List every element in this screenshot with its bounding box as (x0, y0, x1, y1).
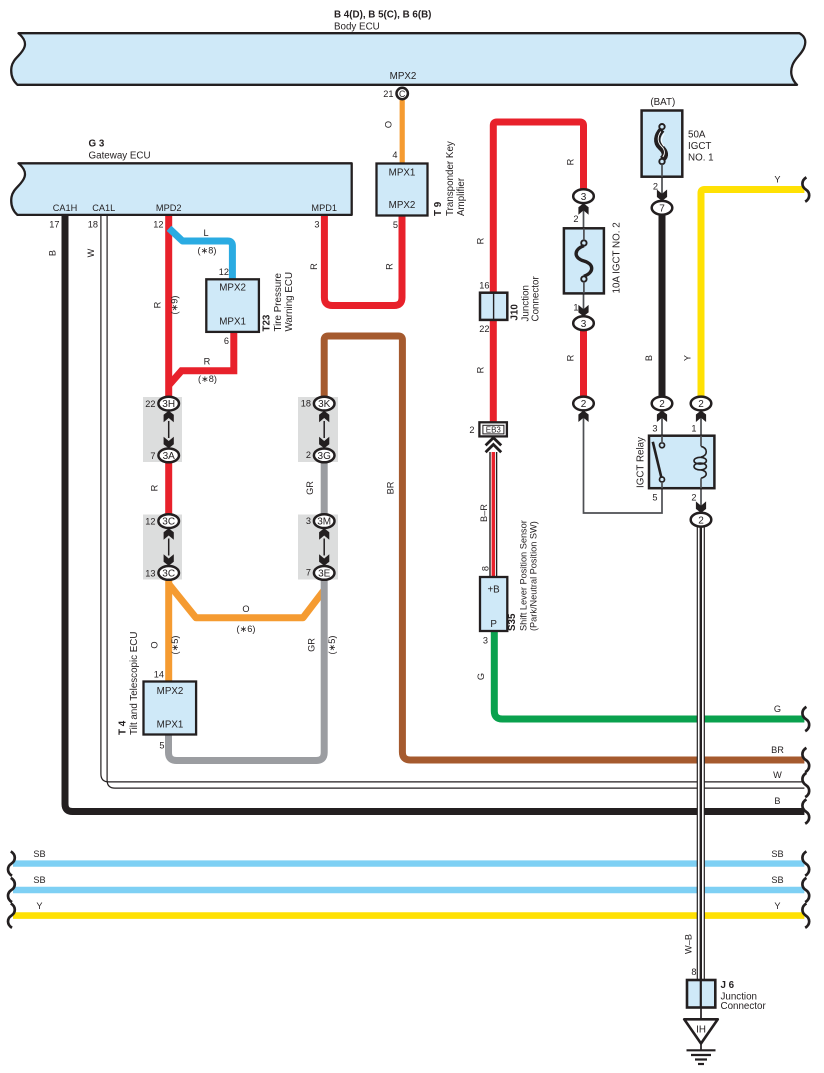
svg-text:SB: SB (771, 875, 783, 885)
svg-text:10A IGCT NO. 2: 10A IGCT NO. 2 (612, 222, 623, 293)
connector 3G oval pin2 (314, 449, 335, 463)
fuse 50A internal pin line (661, 164, 663, 177)
wire O branch (*6) between 3C column and 3E column (169, 584, 325, 618)
svg-text:MPX2: MPX2 (389, 200, 416, 211)
svg-text:Warning ECU: Warning ECU (284, 272, 295, 332)
svg-text:Y: Y (774, 901, 780, 911)
svg-text:G: G (774, 704, 781, 714)
tear mark left Y bus (8, 903, 15, 927)
svg-text:MPX2: MPX2 (219, 283, 246, 294)
svg-text:+B: +B (487, 585, 500, 596)
svg-text:5: 5 (652, 493, 657, 503)
svg-text:3G: 3G (318, 451, 332, 462)
svg-text:3: 3 (483, 636, 488, 646)
connector 3C-3C mating arrows (164, 528, 174, 540)
svg-text:B–R: B–R (479, 504, 489, 522)
svg-text:12: 12 (145, 517, 155, 527)
svg-text:L: L (203, 228, 208, 238)
connector 3C oval pin12 (158, 514, 179, 528)
connector block 3K/3G background (298, 397, 338, 462)
svg-text:(BAT): (BAT) (650, 97, 675, 108)
svg-text:1: 1 (691, 424, 696, 434)
svg-text:17: 17 (49, 220, 59, 230)
svg-text:7: 7 (306, 568, 311, 578)
svg-text:G 3: G 3 (89, 139, 105, 150)
svg-text:3: 3 (314, 220, 319, 230)
svg-text:IGCT Relay: IGCT Relay (636, 437, 647, 488)
svg-text:3: 3 (581, 192, 587, 203)
svg-text:P: P (490, 619, 497, 630)
svg-text:6: 6 (224, 336, 229, 346)
svg-text:T 9: T 9 (433, 201, 444, 216)
svg-text:Y: Y (774, 175, 780, 185)
wire O from body ECU pin21 circle C to T9 pin4 (400, 100, 405, 164)
svg-text:13: 13 (145, 569, 155, 579)
svg-text:IH: IH (696, 1025, 706, 1036)
relay coil (701, 446, 706, 457)
svg-text:GR: GR (307, 638, 317, 652)
oval 3 above fuse 10A (573, 189, 594, 203)
svg-text:12: 12 (219, 267, 229, 277)
svg-text:22: 22 (145, 399, 155, 409)
svg-text:T 4: T 4 (118, 720, 129, 735)
connector 3M-3E mating arrows (319, 528, 329, 540)
thin wire fuse 50A bottom to oval 7 (661, 163, 663, 202)
tear mark right SB upper (802, 851, 809, 875)
svg-text:18: 18 (88, 220, 98, 230)
T23 Tire Pressure Warning ECU box (206, 279, 259, 332)
svg-text:3A: 3A (163, 451, 176, 462)
svg-text:O: O (384, 121, 394, 128)
connector 3K-3G mating arrows (319, 411, 329, 423)
fuse 10A internal pin lines (583, 228, 585, 240)
wire BR from connector 3K up over and down to right edge (324, 336, 804, 760)
svg-text:MPX1: MPX1 (157, 719, 184, 730)
svg-text:T23: T23 (262, 314, 273, 331)
svg-text:Tire Pressure: Tire Pressure (273, 273, 284, 332)
svg-text:8: 8 (481, 566, 491, 571)
ground IH (700, 1008, 702, 1020)
svg-text:7: 7 (150, 451, 155, 461)
svg-text:NO. 1: NO. 1 (688, 153, 714, 164)
J6 Junction Connector box (687, 980, 715, 1008)
svg-text:G: G (476, 673, 486, 680)
svg-text:J10: J10 (510, 304, 521, 321)
G3 Gateway ECU box (11, 163, 351, 215)
tear mark right W (802, 773, 809, 797)
svg-text:5: 5 (393, 220, 398, 230)
svg-text:3H: 3H (162, 399, 175, 410)
svg-text:2: 2 (306, 450, 311, 460)
svg-text:MPX1: MPX1 (389, 168, 416, 179)
svg-text:14: 14 (154, 670, 164, 680)
svg-text:4: 4 (392, 150, 397, 160)
svg-text:W: W (773, 770, 782, 780)
svg-text:R: R (476, 366, 486, 373)
tear mark right Y top (802, 177, 809, 201)
thin wire red oval2 down around to relay pin5 (584, 410, 663, 513)
svg-text:Connector: Connector (531, 276, 542, 322)
svg-text:(∗5): (∗5) (170, 636, 180, 655)
wire R from G3 MPD1 pin3 to T9 pin5 (324, 214, 402, 306)
svg-text:3E: 3E (318, 569, 331, 580)
svg-text:O: O (242, 604, 249, 614)
wire O from connector 3C pin13 down to T4 pin14 (165, 579, 172, 682)
wire W-B from oval2 below relay down to J6 pin8 (white wire, black stripe) (697, 527, 704, 981)
svg-text:SB: SB (33, 875, 45, 885)
svg-text:Y: Y (36, 901, 42, 911)
tear mark left SB lower (8, 878, 15, 902)
fuse 10A element (581, 240, 586, 245)
svg-text:12: 12 (153, 220, 163, 230)
wire R from EB3 pin2 up through J10 pin22/16 and over to fuse column (493, 122, 583, 423)
svg-text:EB3: EB3 (486, 425, 502, 434)
svg-text:2: 2 (653, 182, 658, 192)
thin wire oval3 into fuse 10A top (583, 202, 585, 240)
Body ECU box B4/B5/B6 (11, 33, 805, 85)
tear mark left SB upper (8, 851, 15, 875)
svg-text:(Park/Neutral Position SW): (Park/Neutral Position SW) (529, 521, 539, 631)
svg-text:CA1L: CA1L (92, 203, 115, 213)
svg-text:GR: GR (305, 481, 315, 495)
relay internal pin lines (661, 436, 663, 443)
svg-text:MPX1: MPX1 (219, 316, 246, 327)
svg-text:2: 2 (581, 399, 587, 410)
wire B from G3 CA1H pin17 to right edge (65, 214, 804, 812)
tear mark right Y bus (802, 903, 809, 927)
wire R from oval 3 to oval 2 below fuse 10A (580, 330, 587, 398)
svg-text:BR: BR (386, 481, 396, 494)
svg-text:R: R (150, 484, 160, 491)
svg-text:2: 2 (573, 214, 578, 224)
svg-text:(∗6): (∗6) (237, 624, 256, 634)
svg-text:R: R (476, 237, 486, 244)
connector 3K oval pin18 (314, 397, 335, 411)
svg-text:21: 21 (383, 89, 393, 99)
connector block 3H/3A background (143, 397, 182, 462)
svg-text:(∗8): (∗8) (198, 374, 217, 384)
T4 Tilt and Telescopic ECU box (144, 682, 197, 735)
thin wire black oval2 to relay pin3 (661, 410, 663, 444)
svg-text:Amplifier: Amplifier (456, 177, 467, 216)
svg-text:Y: Y (683, 355, 693, 361)
svg-text:W: W (86, 248, 96, 257)
svg-text:3C: 3C (162, 569, 175, 580)
connector block 3C/3C background (143, 515, 182, 580)
oval 2 black column (652, 397, 673, 411)
svg-text:1: 1 (573, 303, 578, 313)
fuse 10A IGCT NO.2 box (564, 228, 604, 293)
svg-text:CA1H: CA1H (53, 203, 78, 213)
EB3 double chevron arrow (486, 438, 502, 446)
oval 2 below relay (696, 501, 706, 513)
svg-text:J 6: J 6 (721, 980, 735, 991)
J10 Junction Connector box (480, 293, 507, 320)
tear mark right B (802, 799, 809, 823)
svg-text:3C: 3C (162, 517, 175, 528)
svg-text:(∗9): (∗9) (170, 296, 180, 315)
wire R connector 3A to 3C (165, 462, 172, 516)
svg-text:Transponder Key: Transponder Key (445, 141, 456, 216)
svg-text:R: R (385, 263, 395, 270)
svg-text:R: R (566, 354, 576, 361)
svg-text:Shift Lever Position Sensor: Shift Lever Position Sensor (519, 520, 529, 631)
svg-text:B: B (644, 355, 654, 361)
svg-text:(∗8): (∗8) (198, 246, 217, 256)
svg-text:3K: 3K (318, 399, 331, 410)
wire W from G3 CA1L pin18 to right edge (double line) (101, 214, 805, 782)
wire B from oval 7 to oval 2 (659, 214, 666, 397)
svg-text:50A: 50A (688, 130, 706, 141)
connector 3E oval pin7 (314, 566, 335, 580)
svg-text:SB: SB (771, 849, 783, 859)
svg-text:SB: SB (33, 849, 45, 859)
wire GR from connector 3E pin7 down around to T4 pin5 (169, 579, 325, 761)
svg-text:Gateway ECU: Gateway ECU (89, 151, 151, 162)
svg-text:IGCT: IGCT (688, 141, 711, 152)
svg-text:MPX2: MPX2 (157, 686, 184, 697)
svg-text:2: 2 (659, 399, 665, 410)
T9 Transponder Key Amplifier box (377, 164, 428, 216)
connector 3M oval pin3 (314, 514, 335, 528)
svg-text:R: R (309, 263, 319, 270)
connector 3H-3A mating arrows (164, 411, 174, 423)
svg-text:R: R (204, 357, 211, 367)
thin wire fuse 10A bottom to oval 3 (583, 281, 585, 317)
svg-text:B 4(D), B 5(C), B 6(B): B 4(D), B 5(C), B 6(B) (334, 10, 431, 21)
svg-text:S35: S35 (507, 613, 518, 631)
wire B-R from EB3 to S35 pin8 (489, 452, 491, 578)
svg-text:3: 3 (306, 516, 311, 526)
SB bus lower (13, 887, 804, 893)
S35 Shift Lever Position Sensor box (480, 577, 507, 631)
svg-text:W–B: W–B (684, 934, 694, 954)
svg-text:B: B (774, 796, 780, 806)
wire R from G3 MPD2 pin12 down to connector 3H (165, 214, 172, 398)
fuse 50A element (659, 124, 664, 129)
thin wire yellow oval2 to relay pin1 coil (700, 410, 702, 446)
thin wire relay pin2 to oval2 (700, 488, 702, 514)
oval 2 red column (573, 397, 594, 411)
wire R return from T23 pin6 to MPD2 wire junction (169, 331, 234, 385)
oval 3 below fuse 10A (578, 305, 588, 317)
tear mark right SB lower (802, 878, 809, 902)
svg-text:5: 5 (159, 741, 164, 751)
svg-text:22: 22 (479, 324, 489, 334)
svg-text:BR: BR (771, 745, 784, 755)
svg-text:R: R (566, 158, 576, 165)
svg-text:18: 18 (301, 398, 311, 408)
svg-text:2: 2 (698, 515, 704, 526)
tear mark right BR (802, 748, 809, 772)
relay switch contacts (660, 443, 665, 448)
connector 3A oval pin7 (158, 449, 179, 463)
EB3 connector box (479, 422, 507, 436)
wire Y from right edge to oval 2 above relay (701, 190, 804, 398)
Y bus (13, 912, 804, 919)
svg-text:C: C (399, 89, 406, 99)
fuse 50A IGCT NO.1 box (642, 111, 683, 177)
tear mark right G (802, 707, 809, 731)
svg-text:R: R (153, 301, 163, 308)
svg-text:2: 2 (469, 425, 474, 435)
svg-text:3: 3 (652, 424, 657, 434)
svg-text:Body ECU: Body ECU (334, 22, 380, 33)
svg-text:7: 7 (659, 203, 665, 214)
svg-text:3: 3 (581, 319, 587, 330)
oval 2 yellow column (691, 397, 712, 411)
svg-text:MPD2: MPD2 (156, 203, 182, 213)
svg-text:3M: 3M (317, 517, 331, 528)
svg-text:B: B (48, 250, 58, 256)
wire L from MPD2 branch to T23 pin12 (169, 228, 232, 279)
connector block 3M/3E background (298, 515, 338, 580)
svg-text:O: O (150, 641, 160, 648)
wire GR connector 3G to 3M (321, 462, 328, 516)
svg-text:Tilt and Telescopic ECU: Tilt and Telescopic ECU (129, 632, 140, 735)
svg-text:Connector: Connector (721, 1001, 767, 1012)
SB bus upper (13, 860, 804, 866)
svg-text:2: 2 (698, 399, 704, 410)
connector 3C oval pin13 (158, 566, 179, 580)
oval 7 below fuse 50A (657, 190, 667, 202)
svg-text:16: 16 (479, 281, 489, 291)
wire G from S35 pin3 to right edge (494, 631, 804, 720)
svg-text:2: 2 (691, 493, 696, 503)
svg-text:(∗5): (∗5) (327, 636, 337, 655)
svg-text:MPD1: MPD1 (311, 203, 337, 213)
pin 21 circle C on body ECU (397, 88, 408, 99)
svg-text:8: 8 (691, 967, 696, 977)
svg-text:MPX2: MPX2 (390, 71, 417, 82)
IGCT relay box (649, 436, 714, 489)
connector 3H oval pin22 (158, 397, 179, 411)
